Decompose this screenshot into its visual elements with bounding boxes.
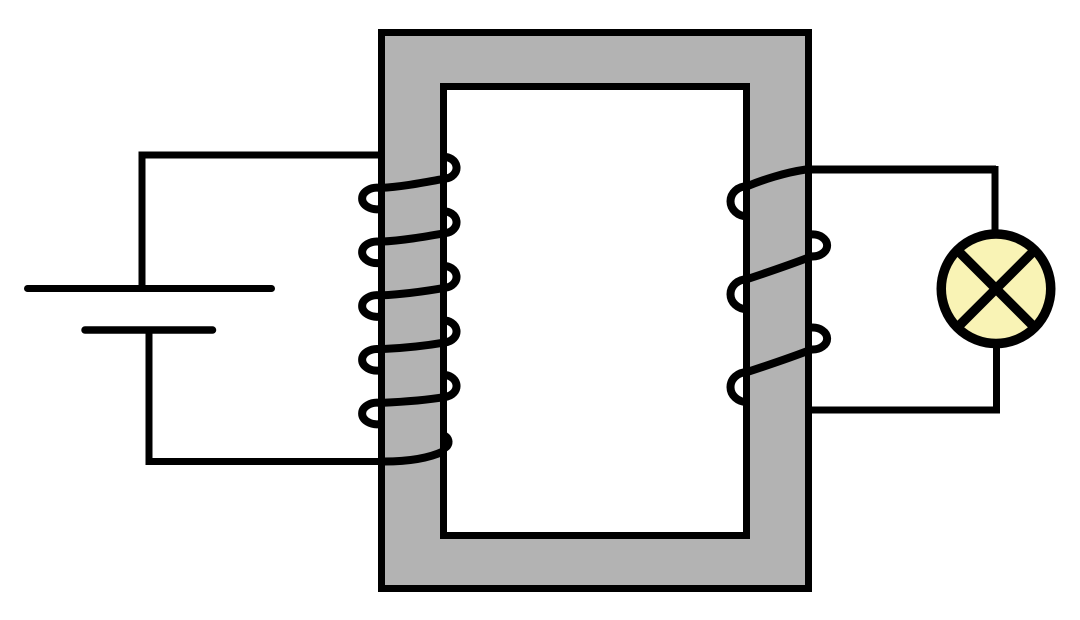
battery plate long <box>28 285 272 292</box>
wire battery bottom feed <box>149 328 383 462</box>
transformer core outer <box>382 33 809 589</box>
transformer core window <box>444 87 747 536</box>
lamp cross stroke 2 <box>957 250 1034 327</box>
primary coil L1 <box>362 157 456 462</box>
secondary coil L2 <box>731 170 997 403</box>
lamp cross stroke 1 <box>957 250 1034 327</box>
primary coil end loop blob <box>441 431 453 452</box>
battery plate short <box>85 326 213 334</box>
lamp <box>941 234 1051 344</box>
wire battery top feed <box>142 155 383 290</box>
wire lamp bottom <box>810 344 997 410</box>
wire lamp top <box>810 170 995 236</box>
